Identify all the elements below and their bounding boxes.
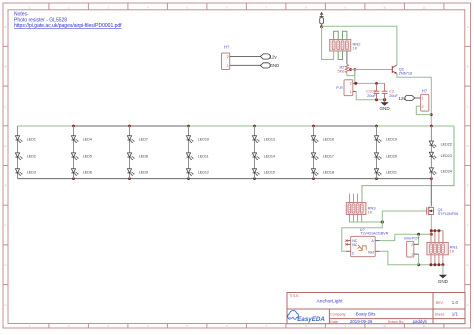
svg-text:LED19: LED19	[386, 137, 397, 141]
svg-text:E: E	[5, 184, 7, 188]
LED22	[429, 141, 452, 148]
wire fuse to Q2 collector	[322, 26, 397, 65]
svg-text:C: C	[352, 252, 355, 256]
capacitor C2	[382, 83, 399, 102]
svg-text:Ref: Ref	[368, 251, 374, 255]
wire LED top rail seg 5	[377, 125, 455, 127]
wire LED bottom rail	[18, 178, 432, 180]
wire LED column 1	[17, 126, 19, 179]
svg-text:Sheet:: Sheet:	[435, 312, 445, 316]
LED14	[252, 153, 275, 160]
node fuse output	[320, 25, 323, 28]
wire RN3 bottom bus	[349, 221, 382, 223]
LED16	[311, 136, 334, 143]
wire U1 A to bus	[380, 234, 395, 240]
svg-text:LED23: LED23	[441, 154, 452, 158]
svg-text:1: 1	[227, 64, 229, 68]
svg-text:B: B	[467, 65, 469, 69]
potentiometer RP1 mini-POT	[404, 236, 421, 257]
svg-text:P-R: P-R	[336, 86, 343, 90]
svg-text:LED21: LED21	[386, 170, 397, 174]
svg-text:GND: GND	[438, 279, 449, 284]
svg-text:LED6: LED6	[83, 170, 92, 174]
svg-text:11: 11	[423, 5, 426, 9]
svg-text:1.0: 1.0	[452, 300, 459, 305]
LED20	[374, 153, 397, 160]
connector H2	[421, 89, 429, 112]
wire base to Q2	[351, 69, 393, 71]
svg-text:Date:: Date:	[330, 320, 338, 324]
wire H2 pin1 to 12v flag	[415, 97, 421, 99]
net flag GND	[260, 63, 279, 68]
title block	[287, 293, 465, 325]
note text	[14, 12, 122, 30]
RN3 bottom pins	[349, 215, 361, 223]
svg-text:LED9: LED9	[139, 170, 148, 174]
svg-text:GND: GND	[270, 63, 280, 68]
wire LED column 5	[254, 126, 256, 179]
svg-text:2: 2	[227, 55, 229, 59]
wire RN2 r4 to R2	[346, 51, 348, 64]
resistor R2	[338, 64, 349, 73]
svg-text:LED17: LED17	[323, 155, 334, 159]
svg-text:Boaty Bits: Boaty Bits	[356, 312, 377, 317]
svg-text:H: H	[5, 303, 7, 307]
LED24	[429, 168, 452, 175]
wire H2 pin2 loop to LED feed	[416, 106, 431, 114]
svg-text:D: D	[467, 144, 469, 148]
wire R2 to Q2 base node	[347, 70, 355, 76]
svg-text:LED8: LED8	[139, 155, 148, 159]
svg-text:11: 11	[423, 324, 426, 328]
svg-text:10: 10	[383, 5, 386, 9]
EasyEDA logo	[288, 311, 326, 323]
wire LED column 7	[376, 126, 378, 179]
svg-text:B: B	[5, 65, 7, 69]
svg-text:A: A	[467, 25, 469, 29]
svg-text:1: 1	[411, 252, 413, 256]
LED15	[252, 169, 275, 176]
svg-text:5K6: 5K6	[338, 70, 345, 74]
LED11	[186, 153, 208, 160]
wire LED column 3	[129, 126, 131, 179]
wire pot pin1 drop	[418, 254, 420, 265]
fuse F1	[320, 17, 324, 27]
svg-text:C: C	[467, 104, 469, 108]
node top rail junctions	[72, 125, 433, 128]
node bottom rail junctions	[72, 177, 433, 180]
wire LED top rail seg 4	[314, 125, 377, 127]
wire LED top rail seg 1	[18, 125, 74, 127]
svg-text:LED24: LED24	[441, 170, 452, 174]
svg-text:NC: NC	[352, 243, 358, 247]
wire LED top rail seg 2	[74, 125, 189, 127]
svg-text:A: A	[5, 25, 7, 29]
wire RN1 bottom bus	[419, 264, 443, 266]
node RN1 bottom bus	[417, 263, 444, 266]
transistor Q2 2N6718	[392, 65, 412, 75]
wire to GND	[442, 265, 444, 275]
svg-text:LED18: LED18	[323, 170, 334, 174]
svg-text:LED16: LED16	[323, 137, 334, 141]
LED13	[252, 136, 275, 143]
photoresistor PR1	[336, 80, 356, 96]
svg-text:LED13: LED13	[264, 137, 275, 141]
LED2	[15, 153, 36, 160]
ground GND below RN1	[438, 275, 449, 284]
svg-text:1/1: 1/1	[452, 312, 459, 317]
node source bus upper	[430, 229, 441, 232]
svg-text:1K: 1K	[368, 210, 373, 215]
svg-text:AnchorLight: AnchorLight	[317, 299, 344, 305]
wire LED column 8	[430, 126, 432, 179]
svg-text:LED3: LED3	[27, 170, 36, 174]
RN3 top pins	[349, 194, 357, 203]
RN1 top pins	[431, 232, 443, 243]
LED6	[71, 169, 92, 176]
LED23	[429, 152, 452, 159]
svg-text:1K: 1K	[353, 46, 358, 51]
svg-text:G: G	[467, 263, 469, 267]
wire fuse to RN2	[322, 27, 334, 60]
wire RN2 r1-r2 top loop	[334, 31, 339, 39]
wire LED top rail seg 3	[189, 125, 314, 127]
LED9	[127, 169, 148, 176]
svg-text:E: E	[467, 184, 469, 188]
LED1	[15, 136, 36, 143]
wire RN2 r2-r3 bottom loop	[338, 51, 342, 60]
svg-text:C: C	[5, 104, 7, 108]
svg-text:GND: GND	[379, 106, 390, 111]
svg-text:1: 1	[350, 90, 352, 94]
svg-text:Drawn By:: Drawn By:	[388, 320, 404, 324]
wire base node to P-R pin2 and caps	[355, 70, 385, 84]
svg-text:G: G	[4, 263, 6, 267]
ground GND near C2	[379, 102, 390, 111]
node Q2 base	[349, 68, 356, 71]
wire Q1 drain from bottom rail	[430, 179, 432, 207]
wire node to U1	[342, 222, 383, 251]
LED5	[71, 153, 92, 160]
svg-text:2: 2	[422, 105, 424, 109]
svg-text:LED4: LED4	[83, 137, 92, 141]
node P-R pin2	[354, 82, 378, 85]
LED10	[186, 136, 209, 143]
wire source bus upper	[431, 231, 443, 243]
LED12	[186, 169, 209, 176]
net flag 12v	[260, 54, 277, 59]
node RN3 bus junction	[381, 220, 384, 223]
node A bus	[417, 233, 433, 236]
LED3	[15, 169, 36, 176]
svg-text:2N6718: 2N6718	[399, 72, 412, 76]
LED21	[374, 169, 397, 176]
svg-text:LED2: LED2	[27, 155, 36, 159]
transistor Q1 STF10NF06	[427, 207, 458, 216]
LED18	[311, 169, 334, 176]
svg-text:REV:: REV:	[436, 301, 444, 305]
resistor network RN1	[427, 243, 458, 255]
wire H1 pin2 to 12v flag	[230, 56, 261, 58]
svg-text:LED12: LED12	[198, 170, 209, 174]
svg-text:20uF: 20uF	[367, 94, 376, 98]
svg-text:2: 2	[350, 82, 352, 86]
svg-text:1: 1	[422, 96, 424, 100]
node cap bottoms	[375, 98, 386, 101]
svg-text:LED14: LED14	[264, 155, 275, 159]
svg-text:LED10: LED10	[198, 137, 209, 141]
svg-text:LED15: LED15	[264, 170, 275, 174]
wire U1 Ref to divider	[380, 251, 419, 264]
svg-text:https://pi.gate.ac.uk/pages/ai: https://pi.gate.ac.uk/pages/airpi-files/…	[14, 23, 122, 29]
svg-text:10: 10	[383, 324, 386, 328]
svg-text:LED5: LED5	[83, 155, 92, 159]
RN1 bottom pins	[431, 255, 443, 265]
wire LED column 4	[188, 126, 190, 179]
node H2 pin2 junction	[430, 113, 433, 116]
svg-text:mini-POT: mini-POT	[404, 236, 421, 240]
svg-text:STF10NF06: STF10NF06	[438, 212, 459, 216]
op-amp U1 TLV431ACDBVR	[345, 228, 388, 257]
svg-text:TITLE:: TITLE:	[289, 294, 299, 298]
svg-text:20uF: 20uF	[389, 94, 398, 98]
LED4	[71, 136, 92, 143]
svg-text:LED11: LED11	[198, 155, 209, 159]
svg-text:paddyb: paddyb	[413, 319, 428, 324]
connector H1	[222, 45, 231, 70]
LED8	[127, 153, 148, 160]
svg-text:LED22: LED22	[441, 143, 452, 147]
resistor network RN3	[346, 203, 376, 215]
svg-text:12v: 12v	[399, 96, 407, 101]
resistor network RN2	[330, 40, 362, 52]
wire LED column 2	[73, 126, 75, 179]
LED19	[374, 136, 397, 143]
net flag 12v at H2	[399, 95, 415, 100]
svg-text:TLV431ACDBVR: TLV431ACDBVR	[360, 231, 388, 235]
LED17	[311, 153, 334, 160]
wire Q2 emitter to LED rail	[397, 74, 431, 127]
svg-text:LED1: LED1	[27, 137, 36, 141]
svg-text:H: H	[467, 303, 469, 307]
svg-text:2019-09-26: 2019-09-26	[350, 319, 373, 324]
svg-text:EasyEDA: EasyEDA	[297, 316, 325, 323]
wire pot pin2 riser	[418, 234, 420, 244]
LED7	[127, 136, 148, 143]
wire RN2 r3-r4 top loop	[343, 31, 347, 39]
svg-text:1K: 1K	[450, 249, 455, 254]
wire Q1 source down	[430, 215, 432, 234]
svg-text:LED20: LED20	[386, 155, 397, 159]
svg-text:LED7: LED7	[139, 137, 148, 141]
wire LED column 6	[313, 126, 315, 179]
svg-text:H?: H?	[224, 45, 230, 50]
wire node to Q1 gate	[382, 211, 426, 222]
svg-text:12v: 12v	[270, 54, 278, 59]
svg-text:H?: H?	[422, 89, 428, 94]
svg-text:Company:: Company:	[330, 312, 346, 316]
wire A-node bus	[395, 233, 432, 235]
wire rail to RN3	[362, 126, 454, 203]
svg-text:D: D	[5, 144, 7, 148]
capacitor C1 C3	[366, 83, 379, 99]
net flag 12v arrow	[320, 12, 323, 16]
wire P-R pin1 to cap bottoms	[356, 92, 384, 100]
svg-text:2: 2	[411, 243, 413, 247]
wire H1 pin1 to GND flag	[230, 64, 261, 66]
